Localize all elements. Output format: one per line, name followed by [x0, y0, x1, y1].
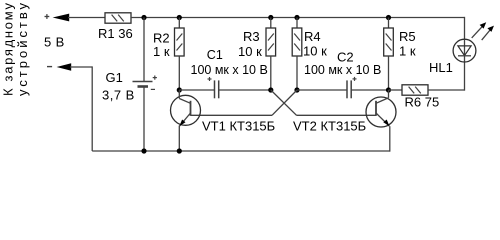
- wire: VT1 collector to C1: [179, 89, 214, 91]
- node: - terminal label: [47, 66, 52, 68]
- svg-text:1 к: 1 к: [153, 44, 170, 59]
- label R4: [304, 29, 321, 44]
- svg-text:100 мк x 10 В: 100 мк x 10 В: [191, 63, 268, 77]
- label 1 к (R5): [399, 44, 416, 59]
- label C2: [337, 50, 354, 65]
- LED HL1: [453, 22, 494, 62]
- wire: - output arrow: [57, 63, 93, 151]
- svg-text:HL1: HL1: [429, 60, 453, 75]
- label 100 мк x 10 В (C1): [191, 63, 268, 77]
- capacitor C2: [347, 77, 357, 98]
- wire: C1 to node C: [219, 89, 271, 91]
- label VT2 КТ315Б: [293, 119, 366, 134]
- svg-text:10 к: 10 к: [303, 44, 327, 59]
- wire: R6 to LED: [428, 62, 465, 91]
- wire: cross coupling node G to VT2 base: [271, 90, 376, 115]
- wire: C2 to VT2 collector: [351, 89, 388, 91]
- svg-text:устройству: устройству: [15, 3, 30, 97]
- node H (C2/R4 junction): [294, 87, 299, 92]
- label 10 к (R4): [303, 44, 327, 59]
- label R6 75: [405, 95, 440, 110]
- transistor VT2: [366, 90, 396, 152]
- node C (junction R3 top): [268, 15, 273, 20]
- node E (junction R5 top): [386, 15, 391, 20]
- wire: + output arrow: [53, 14, 105, 22]
- svg-text:R4: R4: [304, 29, 321, 44]
- node D (junction R4 top): [294, 15, 299, 20]
- resistor R4: [292, 18, 302, 91]
- node: 5 В label: [44, 35, 65, 50]
- label R3: [243, 29, 260, 44]
- svg-text:5 В: 5 В: [44, 35, 65, 50]
- label R1 36: [98, 26, 133, 41]
- label 10 к (R3): [238, 44, 262, 59]
- svg-text:3,7 В: 3,7 В: [102, 88, 135, 103]
- node G (C1/R3 junction): [268, 87, 273, 92]
- resistor R2: [175, 18, 185, 91]
- node F (VT1 collector junction): [177, 87, 182, 92]
- svg-text:G1: G1: [106, 70, 123, 85]
- svg-text:100 мк x 10 В: 100 мк x 10 В: [304, 63, 381, 77]
- svg-text:1 к: 1 к: [399, 44, 416, 59]
- wire: top rail: [131, 17, 465, 19]
- wire: node H to C2: [297, 89, 347, 91]
- svg-text:К зарядному: К зарядному: [0, 3, 15, 97]
- resistor R3: [266, 18, 276, 91]
- label R5: [399, 29, 416, 44]
- wire: cross coupling node H to VT1 base: [191, 90, 298, 115]
- label R2: [153, 31, 170, 46]
- label C1: [207, 48, 223, 62]
- label G1: [106, 70, 123, 85]
- resistor R6: [402, 85, 428, 95]
- node B (junction R2 top): [177, 15, 182, 20]
- svg-text:R1 36: R1 36: [98, 26, 133, 41]
- node: К зарядному устройству label: [0, 3, 30, 97]
- label HL1: [429, 60, 453, 75]
- wire: top rail corner to LED: [464, 17, 466, 40]
- label 100 мк x 10 В (C2): [304, 63, 381, 77]
- svg-text:R5: R5: [399, 29, 416, 44]
- label 1 к (R2): [153, 44, 170, 59]
- svg-text:C1: C1: [207, 48, 223, 62]
- svg-text:VT1 КТ315Б: VT1 КТ315Б: [202, 119, 275, 134]
- transistor VT1: [171, 90, 201, 151]
- wire: VT2 collector to R6: [389, 89, 403, 91]
- capacitor C1: [208, 77, 219, 98]
- node I (VT2 collector junction): [386, 87, 391, 92]
- svg-text:10 к: 10 к: [238, 44, 262, 59]
- svg-text:R3: R3: [243, 29, 260, 44]
- resistor R1: [105, 13, 131, 23]
- node K (VT1 emitter junction): [177, 148, 182, 153]
- label 3,7 В: [102, 88, 135, 103]
- svg-text:VT2 КТ315Б: VT2 КТ315Б: [293, 119, 366, 134]
- node A (junction R1/battery): [141, 15, 146, 20]
- resistor R5: [384, 18, 394, 91]
- node J (battery bottom junction): [141, 148, 146, 153]
- label VT1 КТ315Б: [202, 119, 275, 134]
- battery G1: [133, 18, 157, 152]
- svg-text:R6 75: R6 75: [405, 95, 440, 110]
- wire: bottom rail: [92, 150, 390, 152]
- node: + terminal label: [45, 14, 50, 19]
